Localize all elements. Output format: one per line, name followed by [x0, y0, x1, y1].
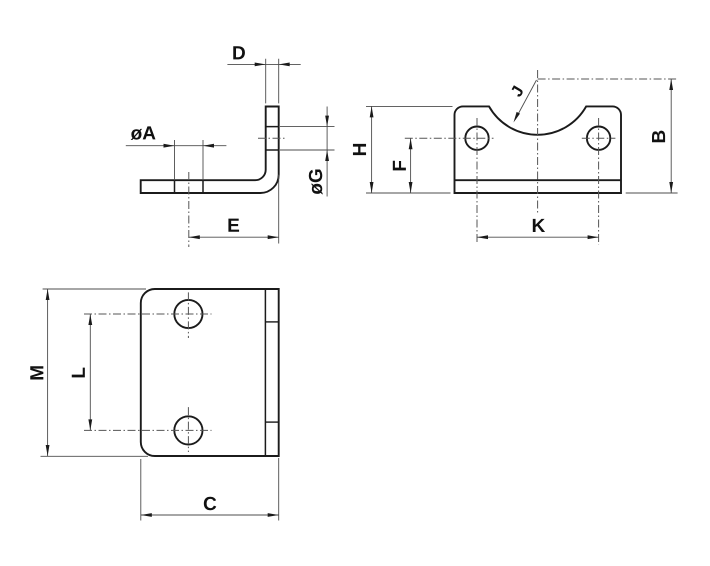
- front view: cradle center horizontal dashline: [538, 78, 678, 80]
- front view: bracket outline with cradle arc: [455, 106, 622, 193]
- dimension B: [626, 79, 678, 193]
- dimension K: [477, 219, 599, 239]
- bottom view: cradle edge tick lower: [265, 421, 278, 423]
- front view: left hole vertical centerline: [476, 118, 478, 244]
- bottom view: base plate outline: [141, 289, 279, 456]
- front view: vertical centerline of cradle: [537, 70, 539, 213]
- side view: flange hole centerline: [258, 137, 287, 139]
- dimension F: [393, 138, 413, 193]
- dimension D: [227, 46, 300, 103]
- side view: base hole edge lines (øA): [175, 180, 204, 193]
- dimension L: [72, 314, 92, 430]
- dimension C: [141, 458, 279, 521]
- front view: right hole vertical centerline: [598, 118, 600, 245]
- side view: flange hole edge lines (øG): [266, 127, 279, 150]
- bottom view: lower hole vertical centerline: [187, 407, 189, 452]
- dimension øA: [126, 126, 227, 180]
- dimension M: [30, 289, 148, 456]
- bottom view: lower hole øA: [174, 416, 202, 444]
- bottom view: upper hole vertical centerline: [187, 292, 189, 338]
- front view: right hole øG: [587, 127, 610, 150]
- dimension E: [189, 175, 279, 244]
- front view: horizontal hole centerline: [405, 137, 616, 139]
- side view: L-bracket outline: [141, 107, 279, 194]
- leader J with arrow: [512, 80, 537, 123]
- front view: left hole øG: [465, 127, 488, 150]
- bottom view: upper hole øA: [174, 300, 202, 328]
- bottom view: cradle edge tick upper: [265, 321, 278, 323]
- bottom view: upper hole horizontal centerline: [84, 313, 212, 315]
- side view: base hole centerline: [188, 172, 190, 247]
- dimension H: [353, 106, 453, 193]
- dimension øG: [280, 107, 335, 197]
- front view: base strip line: [455, 179, 622, 181]
- bottom view: lower hole horizontal centerline: [84, 429, 212, 431]
- bottom view: bend tangent line: [264, 289, 266, 456]
